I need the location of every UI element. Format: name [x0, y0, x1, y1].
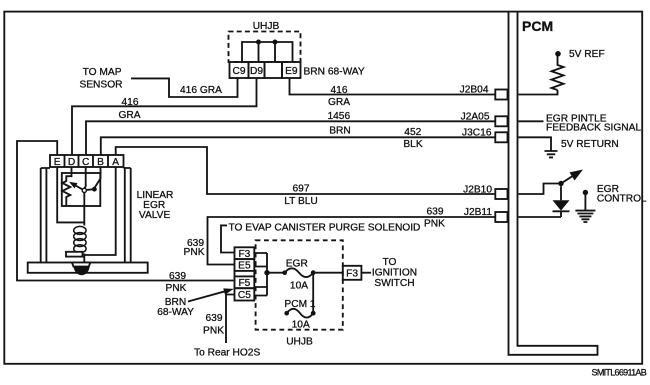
svg-text:CONTROL: CONTROL: [597, 194, 647, 205]
label BRN 68-WAY with arrow to fuse block connector: [157, 288, 234, 318]
svg-text:5V RETURN: 5V RETURN: [561, 139, 619, 150]
svg-text:416 GRA: 416 GRA: [180, 85, 222, 96]
svg-text:VALVE: VALVE: [139, 210, 171, 221]
wire: fuse bus vertical: [266, 253, 268, 296]
svg-text:J2B11: J2B11: [464, 207, 492, 218]
svg-text:UHJB: UHJB: [253, 21, 280, 32]
svg-text:J2B10: J2B10: [463, 184, 492, 195]
svg-text:To Rear HO2S: To Rear HO2S: [194, 348, 260, 359]
node: EGR driver junction: [558, 181, 563, 186]
node EGR CONTROL: [583, 190, 588, 195]
label TO EVAP CANISTER PURGE SOLENOID with leader from F3: [221, 225, 235, 252]
fuse block cavity C5: [235, 288, 255, 301]
wire: C5 to rear HO2S: [226, 295, 235, 344]
pintle shaft upper: [83, 193, 85, 226]
svg-text:5V REF: 5V REF: [569, 49, 605, 60]
svg-text:TO MAP: TO MAP: [83, 67, 122, 78]
fuse EGR 10A: [282, 268, 315, 277]
label EGR (fuse): [286, 259, 308, 270]
svg-text:PNK: PNK: [203, 325, 224, 336]
connector F3 (to ignition switch): [343, 266, 362, 280]
svg-text:E: E: [54, 157, 61, 168]
junction block UHJB (top) dashed outline: [229, 32, 301, 63]
label 639 PNK (long feed wire): [166, 271, 187, 294]
wire: J2B10 to driver node (inside PCM): [519, 184, 559, 195]
wire: 639 PNK PCM J2B11 to fuse block E5: [208, 217, 496, 265]
label 1456 BRN: [327, 111, 350, 136]
pintle dome: [74, 266, 90, 275]
fuse block strip sides: [235, 271, 255, 277]
EGR valve connector pin row E D C B A: [50, 155, 124, 168]
svg-text:639: 639: [169, 271, 186, 282]
svg-text:EGR: EGR: [286, 259, 308, 270]
lead: pin A to coil bottom: [84, 167, 115, 255]
label 10A (PCM 1 fuse): [292, 319, 310, 330]
svg-text:J2A05: J2A05: [461, 112, 490, 123]
lead: pin E to solenoid coil: [57, 167, 84, 222]
lead: pin C to wiper pivot: [84, 167, 85, 188]
label 416 GRA (valve branch): [118, 97, 140, 121]
label 639 PNK (at PCM J2B11): [424, 207, 445, 230]
svg-text:UHJB: UHJB: [286, 336, 313, 347]
solenoid coil: [74, 226, 86, 252]
svg-text:PNK: PNK: [166, 283, 187, 294]
PCM pin J2B04: [460, 84, 508, 99]
wiper pivot circle: [82, 188, 86, 192]
wire: J2A05 stub (inside PCM): [519, 120, 544, 122]
PCM pin J3C16: [462, 128, 507, 143]
svg-text:A: A: [112, 157, 119, 168]
svg-text:416: 416: [331, 85, 348, 96]
wire: 639 PNK valve pin E around left side to fuse block F5: [17, 141, 235, 281]
wire: F3 to ignition switch: [361, 272, 371, 274]
connector cavity C9: [230, 62, 249, 78]
svg-text:452: 452: [404, 127, 421, 138]
lead: pin B to wiper dot: [94, 167, 100, 188]
svg-text:TO: TO: [383, 257, 397, 268]
svg-text:SENSOR: SENSOR: [79, 79, 122, 90]
label UHJB (bottom): [286, 336, 313, 347]
wire: bus to E9: [292, 41, 294, 62]
svg-text:PNK: PNK: [424, 218, 445, 229]
svg-text:IGNITION: IGNITION: [372, 268, 417, 279]
resistor 5V REF pull-up: [552, 56, 564, 91]
label To Rear HO2S: [194, 348, 260, 359]
svg-text:BLK: BLK: [403, 139, 422, 150]
svg-text:697: 697: [293, 183, 310, 194]
svg-text:B: B: [97, 157, 104, 168]
wire: J2B04 to 5V REF resistor (inside PCM): [519, 90, 558, 95]
svg-text:639: 639: [206, 313, 223, 324]
svg-text:639: 639: [427, 207, 444, 218]
svg-text:C9: C9: [232, 66, 245, 77]
svg-text:SMITL66911AB: SMITL66911AB: [592, 367, 647, 377]
label 10A (EGR fuse): [290, 281, 308, 292]
svg-text:PCM: PCM: [522, 18, 553, 34]
label 639 PNK (at E5 drop wire): [184, 238, 205, 258]
label BRN 68-WAY: [304, 66, 365, 77]
valve base plate: [28, 263, 148, 273]
junction: fuse bus to EGR fuse: [264, 270, 269, 275]
svg-text:10A: 10A: [292, 319, 310, 330]
wire: 697 LT BLU valve pin A to PCM J2B10: [116, 147, 496, 194]
svg-text:SWITCH: SWITCH: [374, 278, 414, 289]
wire: 416 GRA from D9 to valve pin D: [72, 78, 257, 155]
wiper arm from dot to pivot: [86, 188, 94, 191]
label PCM 1 (fuse): [284, 299, 315, 310]
junction on bus above D9: [256, 40, 261, 45]
wire: cavity stubs to fuse bus: [254, 253, 267, 296]
svg-text:BRN 68-WAY: BRN 68-WAY: [304, 66, 365, 77]
label EGR CONTROL: [597, 184, 647, 205]
svg-text:D: D: [68, 157, 75, 168]
svg-text:J3C16: J3C16: [462, 128, 492, 139]
svg-text:LT BLU: LT BLU: [284, 196, 318, 207]
PCM connector wall (double line with bottom return): [509, 11, 598, 355]
connector blank cavity: [265, 62, 283, 78]
UHJB fuse panel dashed outline (bottom): [256, 240, 343, 329]
PCM pin J2B10: [463, 184, 507, 199]
junction block UHJB (top) label: [253, 21, 280, 32]
svg-text:FEEDBACK SIGNAL: FEEDBACK SIGNAL: [546, 123, 641, 134]
wire: bus to blank cavity: [274, 42, 276, 62]
svg-text:E5: E5: [238, 261, 251, 272]
svg-text:10A: 10A: [290, 281, 308, 292]
svg-text:C5: C5: [238, 290, 251, 301]
wire: bus to C9: [241, 41, 243, 62]
svg-text:68-WAY: 68-WAY: [157, 307, 194, 318]
wiper contact dot: [92, 187, 97, 192]
wire: EGR fuse junction down to PCM 1 fuse: [312, 273, 314, 314]
wire: UHJB bus: [242, 41, 293, 43]
svg-text:E9: E9: [285, 66, 298, 77]
connector cavity D9: [249, 62, 265, 78]
label LINEAR EGR VALVE: [137, 190, 174, 221]
wire: EGR fuse to ignition feed F3: [313, 272, 343, 274]
svg-text:PCM 1: PCM 1: [284, 299, 315, 310]
label 416 GRA (PCM branch): [328, 85, 350, 108]
node 5V REF: [555, 49, 604, 60]
label PCM: [522, 18, 553, 34]
svg-text:PNK: PNK: [184, 247, 205, 258]
ground (EGR control, hatched): [575, 211, 595, 222]
svg-text:TO EVAP CANISTER PURGE SOLENOI: TO EVAP CANISTER PURGE SOLENOID: [229, 223, 421, 234]
wire: J2B11 to diode (inside PCM): [519, 216, 562, 218]
pintle shaft lower: [83, 254, 85, 263]
svg-text:F3: F3: [346, 269, 358, 280]
label TO MAP SENSOR: [79, 67, 122, 90]
label 697 LT BLU: [284, 183, 318, 207]
svg-text:GRA: GRA: [118, 110, 140, 121]
pintle seat cup: [72, 263, 90, 267]
driver arrow (to EGR control transistor): [563, 170, 583, 183]
wiper arrow pointing at resistor: [69, 182, 83, 190]
fuse block cavity F3: [235, 247, 255, 260]
connector cavity E9: [282, 62, 301, 78]
PCM pin J2A05: [461, 112, 508, 127]
svg-text:BRN: BRN: [329, 125, 351, 136]
diode (flyback): [553, 186, 570, 217]
svg-text:GRA: GRA: [328, 97, 350, 108]
wire: 416 GRA from C9 to MAP sensor: [131, 78, 238, 97]
label 639 PNK (rear HO2S branch): [203, 313, 224, 336]
PCM pin J2B11: [464, 207, 508, 222]
wire: 416 GRA from E9 to PCM J2B04: [290, 78, 496, 95]
figure number SMITL66911AB: [592, 367, 647, 377]
fuse block cavity E5: [235, 259, 255, 272]
resistor (position sensor element) with lead from pin D: [62, 167, 71, 206]
wire: bus junction to EGR fuse: [270, 272, 285, 274]
label 416 GRA (MAP branch): [180, 85, 222, 96]
label 5V RETURN: [561, 139, 619, 150]
EGR valve body outline: [41, 167, 131, 263]
EGR position sensor inner box: [62, 173, 101, 206]
label EGR PINTLE FEEDBACK SIGNAL: [546, 113, 641, 133]
wire: 1456 BRN valve pin C to PCM J2A05: [86, 121, 496, 155]
svg-text:J2B04: J2B04: [460, 84, 489, 95]
armature bar: [66, 252, 83, 257]
svg-text:D9: D9: [250, 66, 263, 77]
wire: 452 BLK valve pin B to PCM J3C16: [101, 137, 496, 155]
label 452 BLK: [403, 127, 422, 150]
label TO IGNITION SWITCH: [372, 257, 417, 289]
svg-text:C: C: [82, 157, 89, 168]
fuse block cavity F5: [235, 276, 255, 289]
wire: J3C16 stub to ground (inside PCM): [519, 137, 552, 150]
fuse PCM 1 10A: [284, 309, 315, 318]
wire: EGR CONTROL node to ground: [584, 195, 586, 210]
svg-text:1456: 1456: [327, 111, 350, 122]
wire: bus to D9: [258, 42, 260, 62]
junction on bus above blank cavity: [273, 40, 278, 45]
ground 5V RETURN: [545, 151, 558, 157]
svg-text:416: 416: [122, 97, 139, 108]
